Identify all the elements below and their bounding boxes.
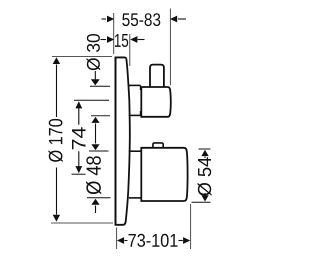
dim 74 line	[78, 108, 80, 167]
dim O170 bottom arrow	[53, 215, 60, 222]
dim 74 top ref line	[74, 99, 109, 101]
dim O30 top ref line	[90, 85, 110, 87]
dim O54 bottom tick	[192, 201, 211, 203]
dim O48 bottom tick	[87, 197, 111, 199]
dim O170 top arrow	[53, 57, 60, 64]
dim O54 top arrow	[201, 150, 208, 156]
dim O48 top tick	[89, 150, 109, 152]
dim 15 left arrow	[101, 39, 107, 41]
dim 15 right arrow	[138, 39, 145, 41]
label O170	[48, 119, 62, 162]
plate face profile	[126, 59, 130, 221]
plate back edge	[115, 57, 117, 225]
label O54	[198, 157, 212, 195]
dim O30/O48 shared shaft with two heads	[95, 124, 97, 144]
dim 73-101 line left w arrow	[124, 240, 127, 242]
top handle junction tick bottom	[140, 111, 142, 115]
dim O170 line upper	[56, 65, 58, 118]
dim O54 line lower	[204, 193, 206, 195]
top handle junction tick top	[140, 85, 142, 90]
dim 55-83 left extension line	[113, 13, 115, 54]
dim 55-83 right extension line	[169, 9, 171, 86]
label O48	[86, 156, 101, 194]
label 15	[115, 34, 128, 47]
dim 74 top arrow	[75, 101, 82, 108]
top handle stem bottom line	[129, 114, 141, 116]
dim O48 bottom arrow	[95, 206, 97, 214]
label 74	[72, 127, 86, 149]
label O30	[87, 34, 101, 70]
dim 73-101 right extension line	[190, 204, 192, 249]
bottom handle stem bottom line	[129, 197, 141, 199]
dim O170 line lower	[56, 168, 58, 215]
top handle stem top line	[129, 84, 141, 86]
dim 74 bottom tick	[72, 173, 86, 175]
dim 74 bottom arrow	[75, 166, 82, 173]
bottom handle bump	[153, 143, 163, 148]
dim O54 top tick	[199, 148, 211, 150]
bottom handle stem top line	[129, 150, 141, 152]
dim 55-83 right arrow	[178, 18, 186, 20]
dim 15 right extension line	[129, 34, 131, 66]
top handle pin	[150, 65, 164, 87]
plate top edge	[115, 57, 127, 58]
dim O30 top arrow	[94, 71, 96, 80]
label 73-101	[129, 234, 178, 247]
dim 73-101 left extension line	[116, 228, 118, 250]
dim O30 bottom ref line	[91, 115, 110, 117]
bottom handle body	[141, 148, 187, 201]
dim O170 bottom ref line	[51, 222, 113, 224]
dim 55-83 left arrow	[102, 18, 107, 20]
dim 73-101 line right w arrow	[179, 240, 183, 242]
dim O54 bottom arrow	[201, 195, 208, 201]
plate bottom edge	[115, 221, 126, 225]
dim O54 line upper	[204, 157, 206, 159]
label 55-83	[122, 13, 160, 26]
dim O170 top ref line	[52, 56, 112, 58]
top handle body	[141, 87, 171, 117]
